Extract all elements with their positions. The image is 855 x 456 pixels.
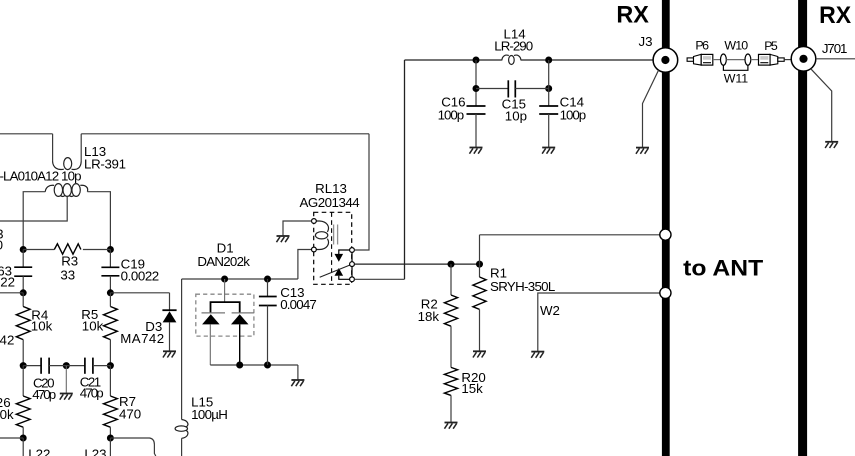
- svg-text:100p: 100p: [560, 108, 587, 123]
- wire D1 right anode down: [239, 324, 241, 365]
- resistor R3: [54, 244, 81, 254]
- capacitor C21: [85, 358, 93, 374]
- wire D1 top row: [182, 278, 298, 280]
- node right mid: [107, 289, 114, 296]
- node cap row mid: [63, 362, 70, 369]
- wire mid ground stem: [65, 366, 67, 393]
- relay core lines: [333, 225, 335, 245]
- svg-text:J701: J701: [822, 41, 848, 56]
- capacitor C15: [508, 80, 515, 97]
- wire exit left bottom row: [0, 437, 23, 439]
- capacitor C14: [539, 106, 558, 114]
- relay contact chain line: [351, 250, 353, 281]
- wire R7 node to lower right exit: [110, 438, 155, 456]
- wire C21 to right node: [93, 365, 111, 367]
- relay arrow down: [335, 250, 353, 262]
- wire main top row y=60: [405, 59, 502, 61]
- wire W10 to P5: [751, 59, 759, 61]
- resistor R4: [16, 293, 30, 366]
- svg-text:RX: RX: [819, 3, 851, 29]
- wire to ANT top row: [480, 234, 660, 236]
- svg-text:LR-290: LR-290: [494, 39, 533, 54]
- ground D1 bottom: [291, 380, 304, 386]
- svg-text:RX: RX: [616, 2, 649, 28]
- wire C20 to mid node: [49, 365, 66, 367]
- relay contact pin middle: [350, 262, 355, 267]
- D1 common cathode bridge: [211, 302, 240, 313]
- svg-text:470p: 470p: [80, 385, 104, 400]
- svg-text:10k: 10k: [31, 319, 53, 334]
- svg-text:RL13: RL13: [315, 181, 347, 196]
- wire relay coil top to ground: [283, 221, 312, 235]
- wire relay bottom contact to main vertical: [354, 278, 404, 280]
- svg-text:DAN202k: DAN202k: [197, 254, 250, 269]
- board edge bar right: [798, 0, 807, 456]
- svg-text:J3: J3: [639, 34, 653, 49]
- ground C16: [469, 148, 482, 154]
- ground C14: [542, 148, 555, 154]
- wire relay top contact rise: [354, 134, 369, 250]
- node cap row right: [107, 362, 114, 369]
- svg-text:0.0022: 0.0022: [121, 268, 160, 283]
- wire C13 lower: [267, 306, 269, 366]
- wire J3 ground diagonal: [643, 70, 659, 147]
- relay arrow up: [335, 268, 353, 279]
- wire P6 to W10: [713, 59, 721, 61]
- node left column / R3 row: [20, 246, 27, 253]
- capacitor C20: [41, 358, 49, 374]
- ground J3: [636, 148, 649, 154]
- wire L13 right rise: [80, 134, 82, 162]
- node filter left top: [473, 57, 480, 64]
- wire L15 column upper: [181, 279, 183, 420]
- inductor L15: [175, 420, 188, 439]
- node left mid with exit wire: [20, 289, 27, 296]
- inductor L14: [502, 55, 521, 64]
- svg-text:L22: L22: [28, 447, 50, 456]
- svg-text:LR-391: LR-391: [84, 157, 126, 172]
- bracket W11: [723, 65, 748, 70]
- plug P6: [687, 54, 713, 65]
- inductor L13: [53, 158, 82, 170]
- node right column / R3 row: [107, 246, 114, 253]
- wire C19 to mid node: [109, 276, 111, 293]
- wire J701 ground diagonal: [811, 69, 832, 142]
- wire D1 center stem: [224, 279, 226, 302]
- svg-text:470p: 470p: [32, 387, 56, 402]
- ground R20: [444, 423, 457, 429]
- svg-text:10k: 10k: [82, 319, 104, 334]
- transformer coil LA010A12: [45, 184, 87, 197]
- ground R1: [473, 351, 486, 357]
- wire L15 to bottom edge: [181, 438, 183, 456]
- svg-text:W2: W2: [540, 303, 560, 318]
- wire P5 stub to J701: [784, 59, 791, 61]
- resistor R5: [104, 293, 118, 366]
- svg-text:10k: 10k: [0, 407, 14, 422]
- wire up to relay coil from D1 row: [298, 250, 312, 280]
- capacitor C63: [14, 267, 32, 276]
- wire main vertical x=404.5: [404, 60, 406, 279]
- svg-text:0.0022: 0.0022: [0, 275, 15, 290]
- wire D1 bottom row: [210, 364, 298, 366]
- svg-text:P6: P6: [695, 39, 709, 53]
- resistor R1: [473, 264, 486, 351]
- svg-text:0.0047: 0.0047: [280, 297, 317, 312]
- node D1 top stem: [221, 276, 228, 283]
- relay contact pin top: [350, 248, 355, 253]
- node D1 bottom right anode: [236, 362, 243, 369]
- wire left col to C63: [22, 250, 24, 268]
- ground D3: [163, 351, 176, 357]
- node R2 top: [448, 261, 455, 268]
- svg-text:AG201344: AG201344: [300, 195, 360, 210]
- svg-text:P5: P5: [764, 39, 778, 53]
- D1 left diode: [202, 314, 220, 324]
- capacitor C13: [259, 297, 277, 306]
- wire W2 row to ANT bottom circle: [538, 293, 660, 351]
- svg-text:SRYH-350L: SRYH-350L: [490, 279, 555, 294]
- connector J3: [653, 48, 678, 73]
- ground W2: [531, 352, 544, 358]
- wire C19 column upper: [109, 250, 111, 267]
- ground J701: [825, 142, 838, 148]
- wire C16 to ground: [475, 114, 477, 147]
- board edge bar left: [662, 0, 670, 456]
- node bottom row left: [20, 435, 27, 442]
- svg-text:18k: 18k: [418, 309, 440, 324]
- capacitor C16: [467, 106, 486, 114]
- relay coil: [315, 221, 328, 250]
- resistor R7: [104, 366, 118, 438]
- node C15 row right: [545, 85, 552, 92]
- svg-text:to ANT: to ANT: [683, 255, 763, 280]
- svg-text:0: 0: [0, 237, 3, 252]
- resistor R20: [444, 367, 457, 422]
- cable W10 right lug: [745, 54, 751, 65]
- node to ANT top circle: [660, 229, 671, 240]
- wire C63 to mid node: [22, 276, 24, 293]
- resistor R26 (cut labels): [16, 366, 30, 438]
- svg-text:33: 33: [60, 268, 75, 283]
- wire D1 left anode down: [209, 324, 211, 365]
- connector J701: [791, 47, 816, 72]
- node filter right top: [545, 57, 552, 64]
- svg-text:10p: 10p: [505, 108, 527, 123]
- wire left col to bottom edge: [22, 438, 24, 456]
- svg-text:W11: W11: [724, 71, 748, 85]
- svg-text:-LA010A12 10p: -LA010A12 10p: [0, 169, 82, 184]
- node C13 top: [264, 276, 271, 283]
- svg-text:L23: L23: [84, 447, 106, 456]
- wire C14 to ground: [548, 114, 550, 147]
- svg-text:MA742: MA742: [0, 333, 14, 348]
- svg-text:100p: 100p: [438, 108, 465, 123]
- wire C13 upper: [267, 279, 269, 297]
- wire C16 column: [475, 60, 477, 106]
- resistor R2: [444, 264, 457, 367]
- svg-text:100µH: 100µH: [191, 407, 228, 422]
- node C15 row left: [473, 85, 480, 92]
- wire exit left at mid row: [0, 292, 23, 294]
- relay dashed box: [314, 212, 352, 284]
- svg-text:W10: W10: [724, 39, 748, 53]
- wire R1 column rise: [479, 235, 481, 264]
- svg-text:R3: R3: [61, 254, 78, 269]
- wire relay middle contact to R branch: [354, 263, 479, 265]
- wire C15 row left: [476, 88, 508, 90]
- ground mid C20/C21: [60, 394, 73, 400]
- wire C15 row right: [515, 88, 548, 90]
- wire J701 right exit: [816, 58, 855, 60]
- wire top-left horizontal into L13: [0, 133, 53, 135]
- wire R3 row right: [83, 249, 111, 251]
- wire R3 row left: [23, 249, 54, 251]
- svg-text:470: 470: [119, 406, 141, 421]
- D1 right cathode bar: [232, 312, 254, 314]
- svg-text:15k: 15k: [461, 381, 483, 396]
- wire D1 bottom to ground: [297, 365, 299, 379]
- node cap row left: [20, 362, 27, 369]
- plug P5: [759, 54, 785, 65]
- wire transformer left lead: [23, 192, 45, 250]
- node bottom row right: [107, 435, 114, 442]
- wire main top row y=60 right of L14: [521, 59, 653, 61]
- svg-text:MA742: MA742: [120, 331, 164, 346]
- node R1 top: [476, 261, 483, 268]
- node to ANT bottom circle: [660, 287, 671, 298]
- wire y=133.8 to relay vertical: [81, 133, 369, 135]
- wire right col to bottom edge: [109, 438, 111, 456]
- capacitor C19: [101, 267, 119, 276]
- relay lever: [320, 265, 350, 277]
- relay contact pin bottom: [350, 277, 355, 282]
- wire transformer center tap: [0, 197, 67, 221]
- relay coil pin top: [312, 219, 317, 224]
- D1 right diode: [231, 314, 249, 324]
- relay divider dashed: [331, 212, 333, 284]
- wire mid node to C21: [66, 365, 85, 367]
- cable W10 left lug: [721, 54, 727, 65]
- wire L13 left drop: [52, 134, 54, 162]
- wire transformer right lead: [87, 192, 110, 250]
- wire C14 column: [548, 60, 550, 106]
- dual diode D1 dashed box: [196, 294, 254, 336]
- node C13 bottom: [264, 362, 271, 369]
- diode D3 MA742: [110, 293, 176, 351]
- relay coil pin bottom: [312, 247, 317, 252]
- wire W10: [726, 59, 745, 61]
- D1 left cathode bar: [202, 312, 226, 314]
- wire cap row left to C20: [23, 365, 41, 367]
- ground relay coil: [276, 236, 289, 242]
